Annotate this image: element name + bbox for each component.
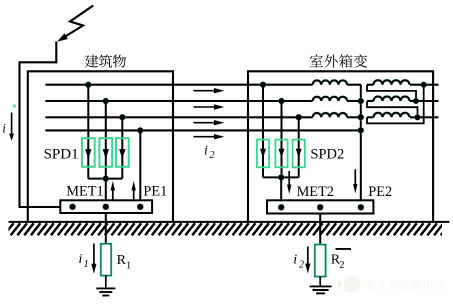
wire SPD2 drop 2 (281, 101, 283, 177)
wire SPD1 bottom jumper (88, 178, 122, 180)
wire SPD1 drop 2 (105, 101, 107, 179)
svg-text:i: i (2, 121, 6, 136)
wire SPD2 jumper to MET2 (280, 177, 282, 207)
arrow in SPD1-3 (119, 149, 125, 159)
arrow in SPD1-2 (103, 149, 109, 159)
node dots in MET1 (69, 203, 76, 210)
SPD1 arrester box 2 (99, 138, 112, 167)
node dot SPD1 jumper (102, 175, 109, 182)
svg-text:1: 1 (126, 260, 131, 271)
lightning stroke arrow (57, 6, 93, 42)
svg-text:SPD2: SPD2 (310, 146, 344, 162)
outdoor box-transformer outline (248, 71, 433, 222)
transformer T1 primary coil L2 (313, 97, 347, 101)
MET1 earthing bar (60, 200, 152, 213)
wire MET2 to R2 (319, 214, 321, 245)
wire SPD1 drop 1 (87, 85, 89, 179)
SPD2 arrester box 1 (257, 140, 269, 168)
svg-text:i: i (293, 253, 297, 268)
wire L3 (45, 116, 312, 118)
arrow line-current 2 (194, 104, 225, 109)
wire L1 (45, 84, 312, 86)
wire secondary return 1 (367, 85, 416, 101)
svg-text:PE1: PE1 (143, 184, 167, 200)
earth surface line (9, 221, 450, 223)
arrow i1 down (91, 244, 96, 274)
transformer T1 secondary coil 3 (367, 116, 374, 118)
wire star bus (neutral) (360, 85, 362, 208)
node dot on PEN (building tap) (137, 127, 144, 134)
svg-text:MET2: MET2 (297, 184, 334, 200)
transformer T1 primary coil L1 (313, 80, 347, 84)
SPD2 arrester box 3 (293, 140, 305, 168)
wire: lightning down-conductor to MET1 (20, 42, 73, 208)
label R2 with overline (336, 248, 352, 250)
label 室外箱变 (310, 54, 367, 67)
svg-text:MET1: MET1 (66, 184, 103, 200)
svg-text:1: 1 (84, 259, 89, 270)
wire R1 to earth (105, 276, 107, 289)
resistor R2 (earthing resistance) (315, 245, 326, 277)
node dots in MET2 (278, 204, 285, 211)
SPD2 arrester box 2 (275, 140, 287, 168)
node dot star-L3 (357, 114, 364, 121)
node dot star-PEN (357, 127, 364, 134)
wire SPD2 drop 1 (262, 85, 264, 178)
svg-text:PE2: PE2 (368, 184, 392, 200)
wire SPD1 drop 3 (121, 117, 123, 178)
node dot star-L2 (357, 97, 364, 104)
arrow line-current 3 (194, 120, 225, 125)
SPD1 arrester box 3 (116, 138, 129, 167)
wire SPD2 bottom jumper (263, 176, 299, 178)
arrow line-current 1 (194, 88, 225, 93)
wire L2 (45, 100, 312, 102)
SPD1 arrester box 1 (82, 138, 95, 167)
arrow i2 down (305, 247, 310, 274)
resistor R1 (earthing resistance) (101, 244, 111, 276)
arrow line-current 4 (194, 134, 225, 139)
wire secondary return 3 (367, 85, 424, 124)
node dot SPD2 jumper (278, 174, 285, 181)
node dots on L1 L2 L3 (transformer box taps) (259, 81, 266, 88)
svg-text:SPD1: SPD1 (44, 146, 79, 162)
watermark text 老王和你聊电气 (365, 280, 446, 291)
wire SPD1 jumper to MET1 (105, 179, 107, 207)
arrow in SPD2-3 (296, 149, 302, 158)
arrow in SPD2-1 (260, 149, 266, 158)
transformer T1 secondary coil 1 (367, 84, 374, 86)
node dots on L1 L2 L3 (building taps) (85, 81, 92, 88)
watermark logo (337, 276, 360, 293)
node dot sec3-sec1 (420, 81, 427, 88)
arrow i (lightning current) (9, 113, 14, 142)
arrow down MET2 current a (287, 171, 291, 194)
svg-text:2: 2 (339, 260, 344, 271)
ground symbol (R2) (310, 286, 332, 293)
svg-text:i: i (79, 251, 83, 266)
arrow up PE current a (111, 181, 115, 200)
svg-text:2: 2 (210, 150, 215, 161)
MET2 earthing bar (267, 200, 373, 213)
arrow in SPD1-1 (85, 149, 91, 159)
arrow up PE current b (132, 181, 136, 200)
arrow down PE2 current b (353, 169, 357, 193)
node dot sec1-sec2 (413, 98, 420, 105)
wire SPD2 drop 3 (298, 117, 300, 177)
wire PEN drop to MET1 (139, 130, 141, 207)
wire MET1 to R1 (105, 213, 107, 244)
wire secondary return 2 (367, 101, 418, 117)
building box outline (28, 71, 173, 222)
svg-text:2: 2 (299, 260, 304, 271)
arrow in SPD2-2 (279, 149, 285, 158)
wire PEN (L4) (45, 129, 360, 131)
transformer T1 secondary coil 2 (367, 100, 374, 102)
label 建筑物 (85, 55, 126, 68)
svg-text:i: i (204, 143, 208, 158)
transformer T1 primary coil L3 (313, 113, 347, 117)
wire R2 to earth (319, 277, 321, 287)
ground symbol (R1) (96, 288, 115, 295)
node dot sec2-sec3 (414, 114, 421, 121)
teal speck (13, 105, 15, 108)
